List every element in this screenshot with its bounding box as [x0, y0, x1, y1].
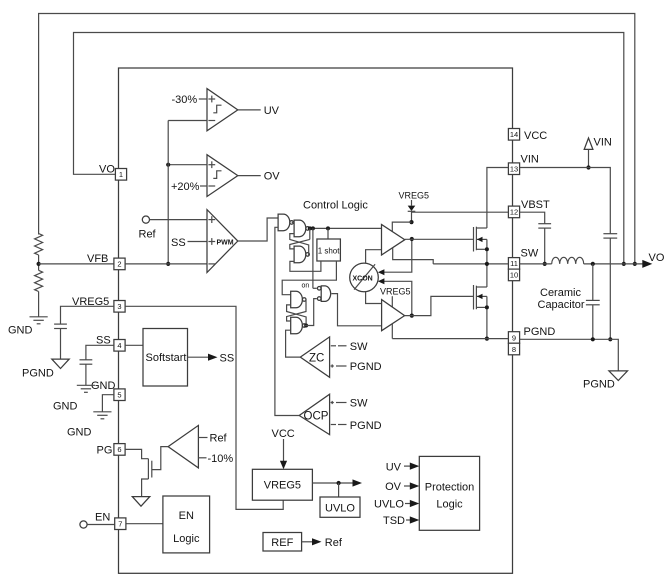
svg-text:PGND: PGND: [583, 379, 615, 391]
wire gate B output cross-coupling drop: [309, 228, 311, 239]
wire PG source to ground: [142, 479, 149, 497]
wire Q3 drain to SW: [486, 264, 488, 287]
wire PWM output to gate A: [238, 218, 278, 241]
wire lower driver return rail to PGND: [391, 324, 393, 339]
svg-text:VREG5: VREG5: [380, 287, 411, 297]
wire VREG5 to UVLO block: [338, 483, 340, 497]
pin 12 VBST: [508, 206, 519, 218]
block EN Logic: [163, 496, 210, 553]
wire on net to gate E input: [282, 261, 336, 295]
wire PG gate to comparator output: [152, 447, 168, 470]
node junction one-shot tap: [326, 226, 330, 230]
node junction ceramic cap on VO: [591, 262, 595, 266]
node junction upper driver output: [410, 237, 414, 241]
pin 1 VO: [115, 169, 126, 181]
wire XCON sense arrow from upper driver output: [378, 239, 412, 275]
node VFB divider junction: [37, 262, 41, 266]
pin 5 GND: [114, 389, 125, 401]
wire XCON sense arrow from lower driver output: [378, 278, 412, 315]
wire VO outer feedback loop: [39, 14, 635, 264]
svg-text:3: 3: [117, 302, 121, 311]
wire SS pin 4 to softstart capacitor: [86, 345, 114, 360]
wire XCON bottom port to lower driver: [366, 292, 382, 304]
svg-text:UV: UV: [264, 105, 280, 117]
svg-text:1 shot: 1 shot: [318, 247, 341, 256]
wire lower driver output to low-side gate: [405, 296, 474, 315]
block Protection Logic: [419, 456, 479, 530]
wire PGND rail to pin 9: [392, 338, 508, 340]
svg-text:UVLO: UVLO: [325, 503, 355, 515]
pin 13 VIN: [508, 163, 519, 175]
pin 9 PGND: [508, 332, 519, 344]
svg-text:PGND: PGND: [524, 326, 556, 338]
node junction sense loop on VO line: [622, 262, 626, 266]
wire cross diagonal E-out to F-in: [287, 300, 306, 322]
gate B NAND latch top: [294, 220, 306, 237]
svg-text:2: 2: [117, 260, 121, 269]
svg-text:10: 10: [510, 271, 518, 280]
svg-text:XCON: XCON: [353, 276, 373, 283]
svg-text:on: on: [302, 283, 310, 290]
svg-text:Ref: Ref: [139, 229, 157, 241]
svg-text:GND: GND: [67, 427, 92, 439]
pin 7 EN: [115, 518, 126, 530]
pin 8: [508, 343, 519, 355]
block XCON crossover control circle: [350, 263, 379, 292]
node junction latch output 1: [308, 226, 312, 230]
wire VBST node to pin 12: [412, 211, 509, 213]
wire cross diagonal B-out to C-in: [290, 239, 310, 249]
arrow VO output: [642, 260, 652, 268]
block VREG5 regulator: [252, 469, 312, 500]
wire VFB pin 2 to PWM minus input: [125, 263, 207, 265]
wire latch output bus to upper driver: [308, 227, 382, 229]
svg-text:ZC: ZC: [309, 353, 324, 365]
node junction SW at Q2 source: [485, 262, 489, 266]
wire C2 to ground: [85, 364, 87, 385]
svg-text:SW: SW: [350, 398, 368, 410]
svg-text:VIN: VIN: [521, 154, 539, 166]
svg-text:-10%: -10%: [208, 453, 234, 465]
svg-text:VO: VO: [649, 252, 665, 264]
wire VIN rail from pin 13 to input cap: [520, 168, 611, 234]
wire R1 to VFB node: [38, 255, 40, 270]
node junction outer loop on VO line: [633, 262, 637, 266]
gate F NAND latch2 bottom: [291, 317, 303, 334]
block REF: [263, 533, 302, 552]
wire one-shot input: [327, 228, 329, 239]
ground GND pin 5: [93, 411, 111, 413]
svg-text:VFB: VFB: [87, 253, 108, 265]
svg-text:GND: GND: [8, 325, 33, 337]
ground PGND output: [609, 371, 628, 381]
wire VBST external to bootstrap cap: [520, 212, 545, 224]
wire VO sense loop to pin 1: [74, 33, 624, 264]
svg-text:PG: PG: [97, 445, 113, 457]
wire EN terminal to pin 7: [87, 524, 114, 526]
wire SW pin 11 to inductor: [520, 263, 552, 265]
resistor R2 lower feedback divider: [35, 270, 43, 291]
svg-text:Ref: Ref: [210, 433, 228, 445]
svg-text:UVLO: UVLO: [374, 499, 404, 511]
pin 2 VFB: [114, 258, 125, 270]
svg-text:Ceramic: Ceramic: [540, 287, 581, 299]
node junction latch output 2: [311, 226, 315, 230]
op-amp upper gate driver: [382, 225, 405, 256]
wire OCP PGND input stub: [338, 424, 347, 426]
svg-text:OV: OV: [385, 481, 402, 493]
block 1 shot: [317, 239, 341, 261]
svg-text:Softstart: Softstart: [146, 352, 187, 364]
inductor L1: [552, 257, 584, 264]
pin 10: [508, 269, 519, 281]
wire VFB node to pin 2: [39, 263, 114, 265]
node junction VIN: [586, 165, 590, 169]
wire Q2 drain to VIN: [487, 168, 509, 229]
wire SW rail to pin 11: [433, 263, 508, 265]
op-amp PG comparator: [168, 425, 198, 468]
node junction bootstrap cap on SW: [543, 262, 547, 266]
wire C1 to PGND symbol: [60, 329, 62, 360]
svg-text:VBST: VBST: [521, 199, 550, 211]
wire SS stub to PWM input: [188, 241, 208, 243]
wire OV plus input from VFB sense: [168, 164, 207, 166]
svg-text:UV: UV: [386, 461, 402, 473]
svg-text:+20%: +20%: [171, 181, 200, 193]
wire OCP output to gate A lower input: [275, 227, 299, 415]
block UVLO: [320, 497, 360, 517]
wire VREG5 pin 3 to bypass capacitor: [61, 306, 115, 324]
node junction sense at OV input: [166, 163, 170, 167]
wire OV arrow into protection: [404, 482, 419, 489]
svg-text:Logic: Logic: [436, 498, 463, 510]
wire bootstrap to upper driver supply: [392, 222, 411, 232]
wire VIN triangle to VIN rail: [588, 149, 590, 167]
svg-text:Protection: Protection: [425, 481, 475, 493]
svg-text:OV: OV: [264, 171, 281, 183]
gate E NAND latch2 top: [291, 291, 303, 308]
capacitor C5 input: [603, 233, 617, 235]
svg-text:11: 11: [510, 259, 518, 268]
wire OCP SW input stub: [336, 402, 347, 404]
svg-text:PGND: PGND: [22, 368, 54, 380]
svg-text:SW: SW: [521, 248, 539, 260]
wire ZC output to gate F lower input: [286, 330, 301, 357]
wire Ref input stub: [198, 437, 207, 439]
wire UV minus input from VFB sense: [168, 120, 207, 122]
svg-text:1: 1: [119, 170, 123, 179]
svg-text:VREG5: VREG5: [264, 480, 301, 492]
wire pin 4 to softstart block: [125, 344, 143, 346]
op-amp lower gate driver: [382, 300, 405, 331]
wire C5 to PGND rail: [609, 238, 611, 339]
terminal EN input circle: [80, 521, 87, 528]
terminal Ref circle: [142, 216, 149, 223]
wire +20% stub to OV minus input: [200, 185, 207, 187]
wire VREG5 output arrow: [312, 479, 362, 486]
wire UV output: [238, 109, 261, 111]
wire VREG5 stub to lower driver supply: [391, 296, 393, 307]
gate C NAND latch bottom: [294, 246, 306, 263]
svg-text:GND: GND: [53, 401, 78, 413]
wire gate B output to gate D upper input: [312, 228, 314, 288]
pin 14 VCC: [508, 129, 519, 141]
svg-text:4: 4: [117, 341, 121, 350]
capacitor C2 softstart: [80, 359, 93, 361]
svg-text:SS: SS: [220, 353, 235, 365]
node junction gate F output: [304, 324, 308, 328]
svg-text:Ref: Ref: [325, 537, 343, 549]
ground PGND under C1: [52, 359, 69, 368]
svg-text:VIN: VIN: [594, 137, 612, 149]
svg-text:Logic: Logic: [173, 533, 200, 545]
node junction bootstrap: [409, 220, 413, 224]
wire cross diagonal C-out to B-in: [290, 234, 309, 256]
op-amp OCP comparator: [299, 394, 336, 434]
svg-text:EN: EN: [179, 510, 194, 522]
gate D AND with inverted inputs: [317, 286, 330, 302]
transistor Q1 PG open drain: [148, 459, 151, 479]
capacitor C3 bootstrap: [538, 223, 551, 225]
svg-text:VCC: VCC: [272, 428, 295, 440]
wire cross diagonal F-out to E-in: [287, 305, 307, 326]
svg-text:9: 9: [512, 333, 516, 342]
node junction Q3 source on PGND rail: [485, 337, 489, 341]
svg-text:12: 12: [510, 208, 518, 217]
wire UVLO arrow into protection: [405, 500, 419, 507]
wire -30% stub to UV plus input: [199, 98, 207, 100]
node junction sense on VFB line: [166, 262, 170, 266]
ground PGND under Q1: [132, 497, 150, 507]
wire TSD arrow into protection: [406, 516, 419, 523]
node junction ceramic cap on PGND: [591, 337, 595, 341]
svg-text:Control Logic: Control Logic: [303, 200, 368, 212]
svg-text:OCP: OCP: [304, 411, 329, 423]
svg-text:5: 5: [117, 391, 121, 400]
wire PGND external rail: [520, 339, 619, 371]
svg-text:VO: VO: [99, 164, 115, 176]
wire gate A output to gate B input: [292, 221, 294, 223]
svg-text:8: 8: [512, 345, 516, 354]
svg-text:TSD: TSD: [383, 515, 405, 527]
svg-text:REF: REF: [271, 537, 293, 549]
wire XCON top port to upper driver: [366, 250, 382, 264]
svg-text:7: 7: [118, 520, 122, 529]
svg-text:EN: EN: [95, 512, 110, 524]
wire R2 to ground: [38, 292, 40, 317]
node junction VREG5 output: [337, 481, 341, 485]
wire gate D output to lower driver: [332, 294, 382, 326]
pin 4 SS: [114, 340, 125, 352]
svg-text:-30%: -30%: [172, 94, 198, 106]
transistor Q2 high-side NMOS: [474, 227, 489, 264]
svg-text:SS: SS: [171, 237, 186, 249]
svg-text:PGND: PGND: [350, 420, 382, 432]
wire UV arrow into protection: [404, 463, 419, 470]
wire diode cathode to VBST node: [411, 211, 413, 222]
svg-text:6: 6: [117, 445, 121, 454]
wire Ref to PWM plus input: [150, 219, 208, 221]
op-amp PWM comparator: [207, 210, 238, 273]
wire pin 7 to EN logic block: [126, 523, 162, 525]
wire VREG5 net pin 3 to regulator block: [125, 306, 283, 509]
wire gate F output to gate D lower input: [304, 299, 317, 326]
op-amp OV comparator: [207, 155, 238, 197]
wire upper driver return rail to SW: [393, 248, 434, 264]
wire ZC SW input stub: [338, 345, 347, 347]
wire pin 6 to PG transistor drain: [125, 449, 148, 458]
terminal VIN supply triangle: [584, 138, 593, 149]
capacitor C4 ceramic output: [586, 264, 600, 339]
op-amp ZC comparator: [300, 337, 336, 377]
IC boundary rectangle: [119, 68, 513, 573]
wire upper driver output to high-side gate: [405, 238, 474, 240]
ground GND feedback divider: [30, 316, 48, 318]
diode D1 bootstrap: [408, 206, 416, 212]
node junction lower driver output: [410, 314, 414, 318]
wire VCC arrow into VREG5 block: [280, 439, 287, 469]
svg-text:14: 14: [510, 130, 518, 139]
svg-text:Capacitor: Capacitor: [538, 299, 585, 311]
wire pin 5 GND to ground: [102, 395, 114, 412]
pin 6 PG: [114, 444, 125, 456]
wire VREG5 stub to diode: [411, 200, 413, 206]
transistor Q3 low-side NMOS: [474, 285, 489, 339]
wire OV output: [238, 175, 261, 177]
svg-text:13: 13: [510, 165, 518, 174]
wire VFB sense vertical: [167, 121, 169, 264]
pin 3 VREG5: [114, 301, 125, 313]
svg-text:VCC: VCC: [524, 130, 547, 142]
wire REF output arrow: [302, 538, 322, 545]
svg-text:GND: GND: [91, 380, 116, 392]
wire -10% input stub: [198, 457, 206, 459]
wire softstart SS output arrow: [188, 354, 218, 361]
svg-text:PGND: PGND: [350, 361, 382, 373]
resistor R1 upper feedback divider: [35, 234, 43, 256]
wire one-shot output to gate C lower input: [290, 261, 321, 271]
svg-text:SW: SW: [350, 341, 368, 353]
wire C3 to SW line: [544, 228, 546, 264]
svg-text:VREG5: VREG5: [399, 191, 430, 201]
svg-text:PWM: PWM: [217, 240, 234, 247]
gate A NAND (PWM/OCP): [278, 214, 290, 231]
block Softstart: [143, 329, 188, 387]
pin 11 SW: [508, 258, 519, 270]
node junction C5 on PGND: [608, 337, 612, 341]
wire ZC PGND input stub: [336, 365, 347, 367]
ground GND under C2: [77, 384, 95, 386]
capacitor C1 VREG5 bypass: [54, 323, 67, 325]
op-amp UV comparator: [207, 89, 238, 131]
wire inductor to VO output: [584, 263, 643, 265]
